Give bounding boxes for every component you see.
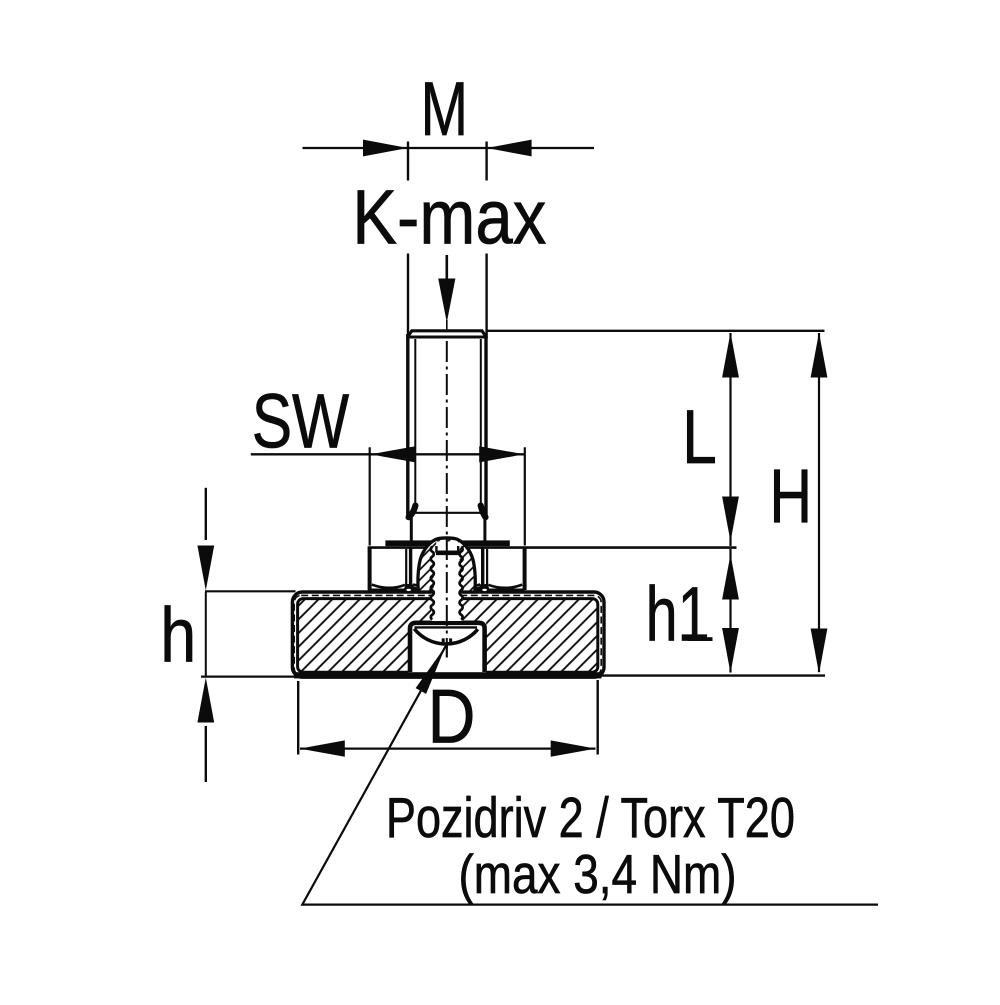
M-K extension line right upper (485, 142, 487, 181)
svg-text:SW: SW (252, 378, 350, 464)
dimension h top extension line (205, 590, 296, 592)
ball dome (hatched) (418, 538, 475, 592)
dimension D right extension line (597, 680, 599, 755)
K-max down arrow line (445, 255, 448, 290)
dimension L top arrowhead (722, 333, 739, 378)
pozidriv slot marks (443, 638, 450, 657)
svg-text:L: L (682, 395, 717, 480)
dimension h1 bottom arrowhead (722, 628, 739, 673)
stud shaft white channel inside dome and base (434, 542, 460, 621)
hex nut left facet inner line (409, 549, 412, 587)
base plate inner contour with hatching (298, 599, 598, 673)
dimension M line (303, 147, 595, 149)
screw recess in base (409, 622, 487, 673)
M-K extension line left upper (407, 142, 409, 181)
washer bar on hex nut (385, 540, 509, 546)
serif foot of digit 1 in h1 (688, 637, 713, 641)
dimension SW right arrowhead (479, 446, 524, 462)
neck left edge (410, 514, 413, 541)
base plate bottom merged edge band (294, 672, 602, 678)
K-max tip line (446, 320, 448, 330)
dimension H bottom arrowhead (811, 629, 828, 674)
dimension M right arrowhead (487, 140, 532, 157)
white arc hole under right facet foot (482, 589, 487, 591)
dark wedge between right facet foot and dome base (474, 586, 481, 593)
dimension SW line left segment (251, 453, 525, 455)
dimension h1 top arrowhead (722, 555, 739, 600)
threaded shaft right wavy edge (460, 547, 463, 620)
svg-text:(max 3,4 Nm): (max 3,4 Nm) (459, 843, 737, 905)
screw head flat (415, 626, 478, 628)
threaded shaft left wavy edge (431, 547, 434, 620)
dark wedge between left facet foot and dome base (413, 586, 420, 593)
stud threaded section right outer edge (484, 334, 487, 517)
dimension H line (818, 333, 820, 672)
centerline dash-dot (446, 341, 448, 648)
svg-text:K-max: K-max (352, 175, 546, 261)
stud thread inner line right (480, 339, 482, 508)
hex nut left facet chamfer arc (372, 585, 405, 588)
hex nut right outer edge (523, 548, 527, 590)
dimension h upper arrowhead (197, 546, 214, 591)
SW extension line right (524, 447, 526, 545)
hex nut left facet foot (404, 584, 414, 589)
dimension h lower line (205, 726, 207, 782)
hex nut right facet foot (479, 584, 489, 589)
screw head dome arc (414, 629, 478, 644)
hex nut right facet inner line (481, 549, 484, 587)
top extension line (stud top to H) (486, 330, 825, 332)
svg-text:h: h (160, 593, 196, 679)
hex nut left outer edge (368, 548, 372, 590)
thread runout flare left (409, 506, 416, 518)
white gap column for stud shaft through base top edges (431, 585, 463, 621)
hex nut top line and mid extension line (368, 546, 737, 549)
bottom extension line (base bottom to H) (596, 674, 826, 676)
white arc hole under left facet foot (406, 589, 411, 591)
svg-text:M: M (421, 67, 468, 152)
hex nut middle facet chamfer arc (413, 585, 480, 590)
base plate outer contour (rubber cap) (292, 592, 604, 677)
hex nut left facet line (405, 549, 407, 586)
M-K extension line right lower (485, 254, 487, 336)
hex nut bottom edge (368, 589, 525, 592)
dimension h upper line (205, 488, 207, 540)
stud top second line (406, 336, 488, 339)
dimension h lower arrowhead (197, 678, 214, 723)
dimension L bottom arrowhead (722, 497, 739, 542)
M-K extension line left lower (407, 254, 409, 336)
stud threaded section left outer edge (406, 334, 409, 517)
SW extension line left (369, 447, 371, 545)
dimension M left arrowhead (363, 140, 408, 157)
leader line to screw head (302, 646, 878, 905)
svg-text:h1: h1 (646, 572, 710, 658)
hex nut right facet line (486, 549, 488, 586)
svg-text:D: D (428, 674, 476, 759)
screw tip end face inside ball (436, 546, 459, 553)
leader arrowhead (416, 646, 446, 694)
hex nut right facet chamfer arc (488, 585, 522, 588)
dimension D line (300, 747, 596, 749)
dimension h inner line (205, 592, 207, 676)
dimension h bottom extension line (201, 675, 299, 677)
stud top chamfered edge (408, 331, 487, 337)
dimension h1 line (729, 549, 731, 673)
stud thread inner line left (414, 339, 416, 508)
dimension SW left arrowhead (370, 446, 415, 462)
dimension D left arrowhead (300, 740, 345, 756)
neck right edge (483, 514, 486, 541)
thread runout line (408, 512, 485, 514)
dimension H top arrowhead (811, 333, 828, 378)
white box behind K-max label (378, 183, 558, 249)
svg-text:H: H (769, 455, 812, 540)
base plate dashed hidden line (294, 595, 601, 675)
dimension L line (729, 333, 731, 546)
K-max down arrowhead (438, 279, 455, 323)
dimension D left extension line (297, 681, 299, 755)
svg-text:Pozidriv 2 / Torx T20: Pozidriv 2 / Torx T20 (386, 786, 795, 850)
thread runout flare right (481, 506, 486, 518)
dimension D right arrowhead (551, 740, 596, 756)
